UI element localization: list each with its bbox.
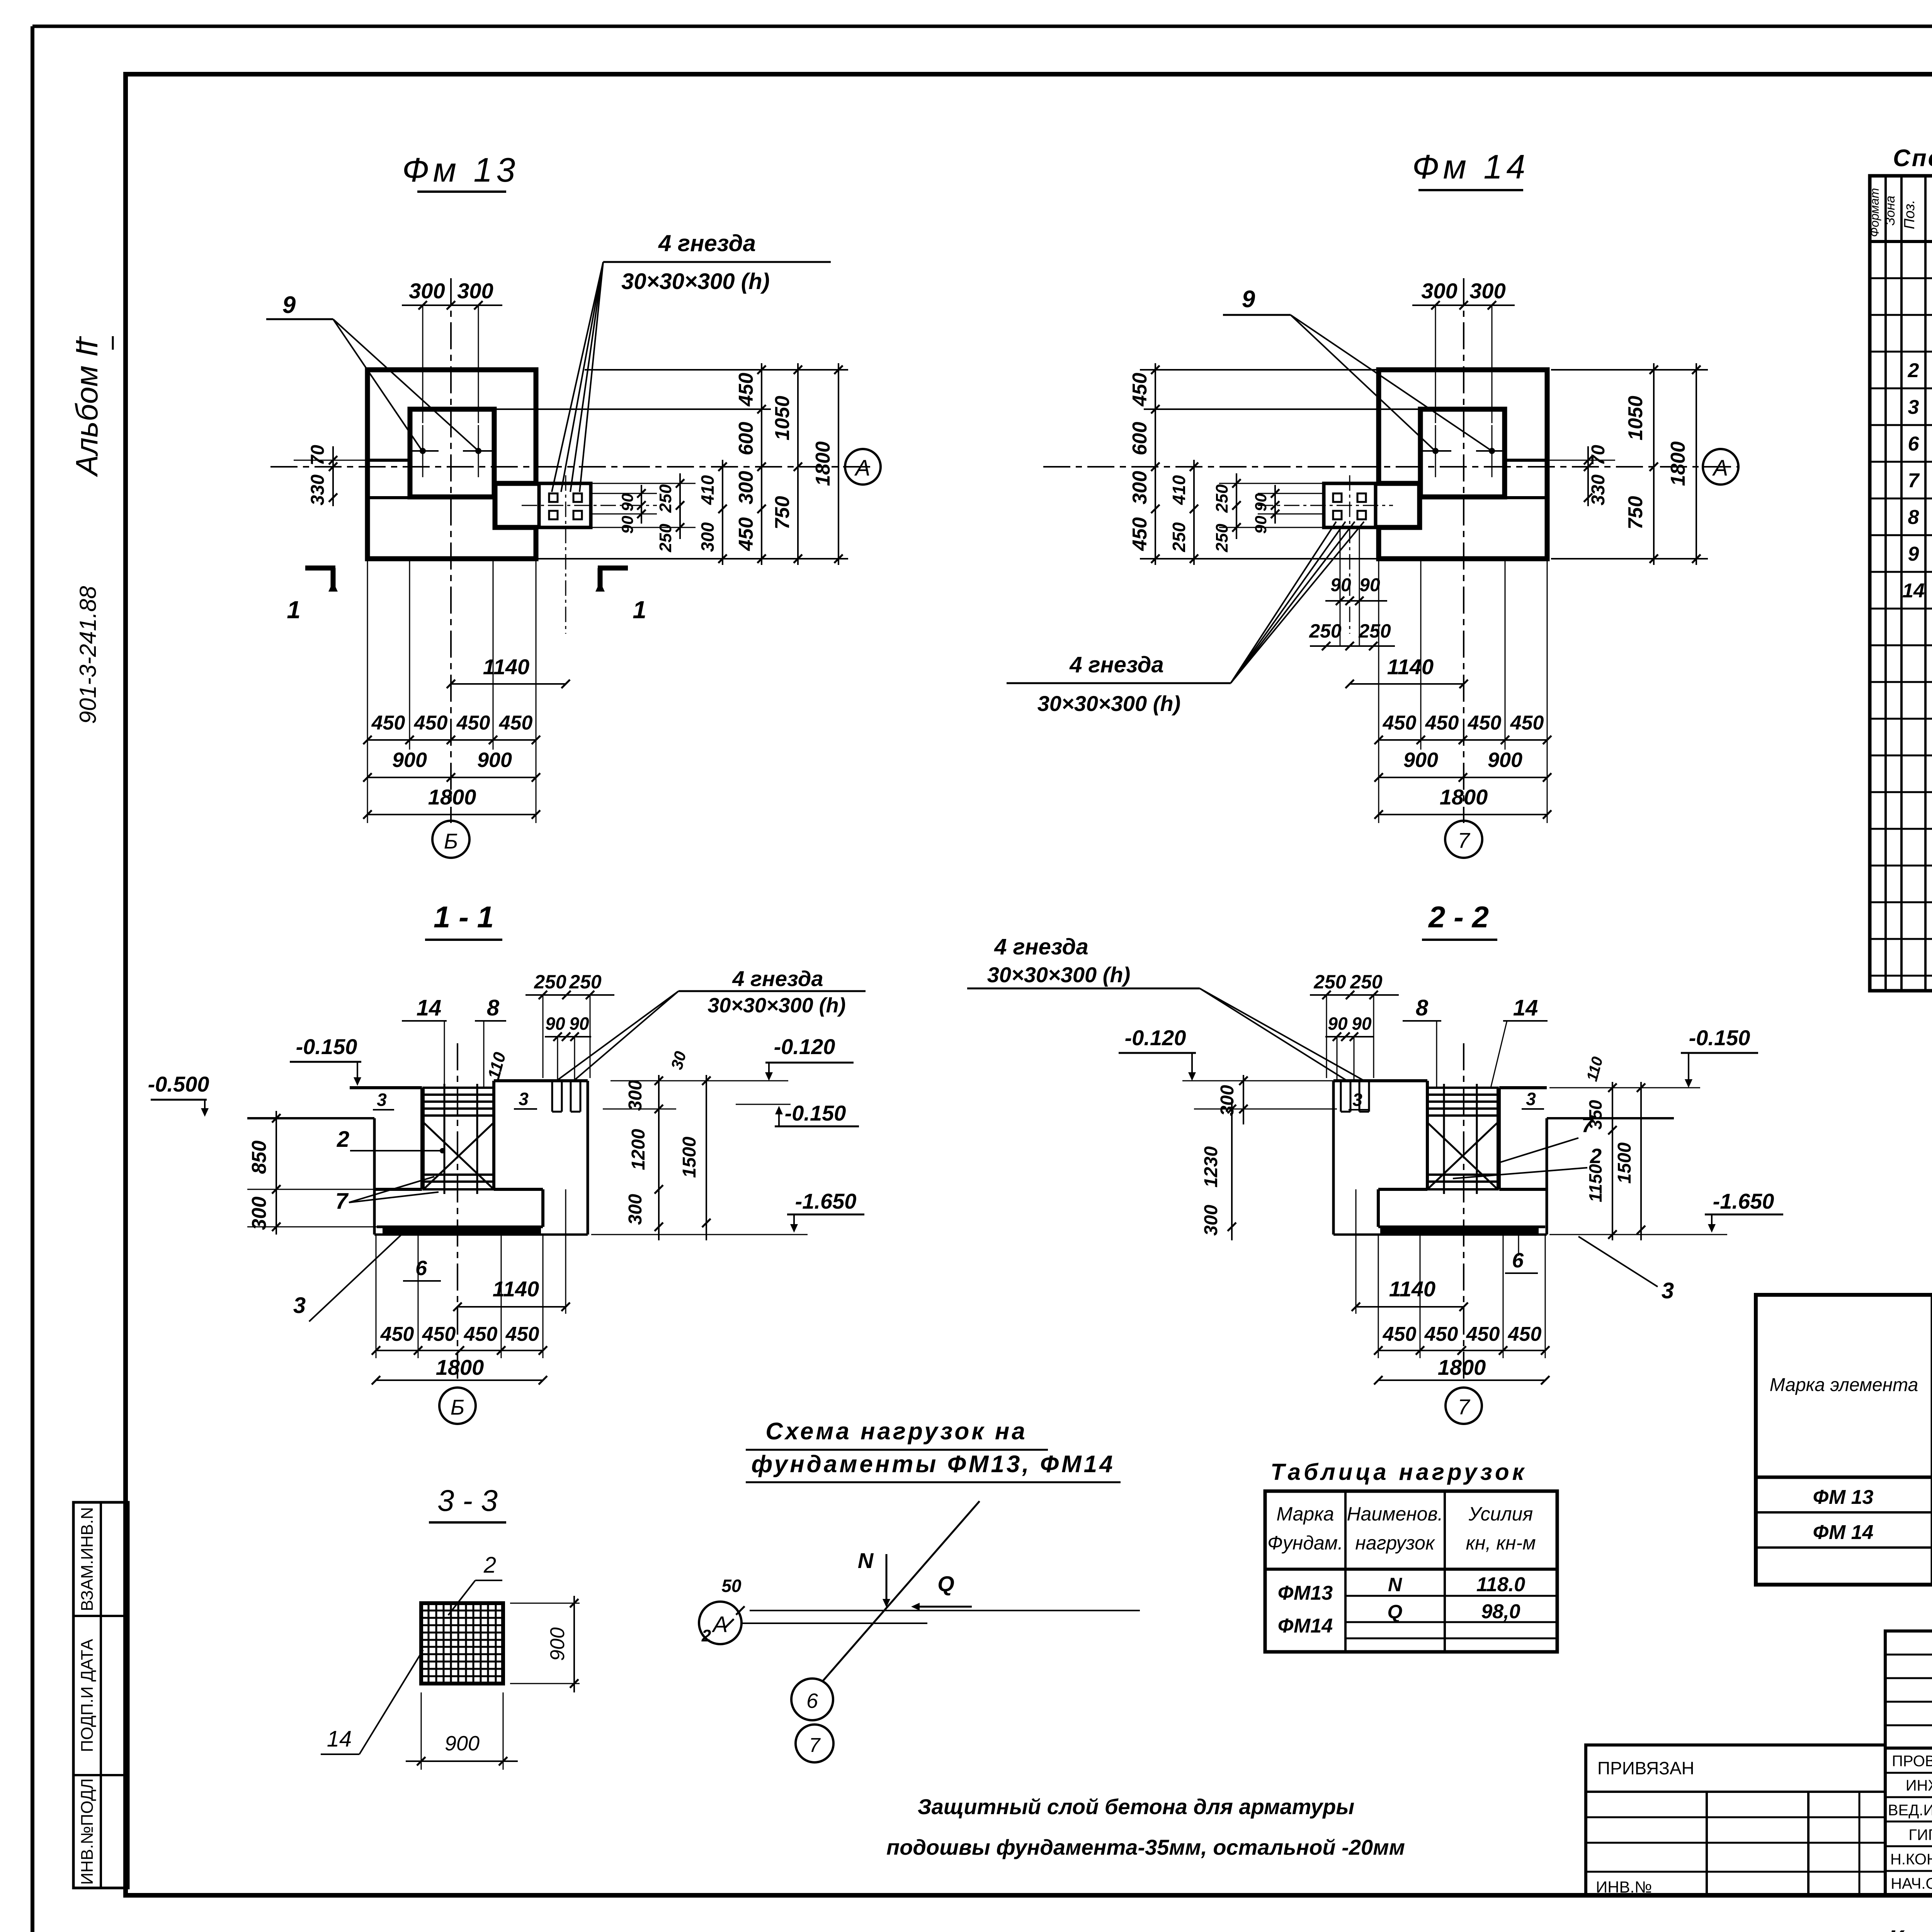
sec2 excavation right wall: [1546, 1118, 1548, 1235]
svg-text:7: 7: [1582, 1114, 1594, 1137]
FM13 section mark 1 left: [305, 566, 335, 571]
sheet outer left edge line: [31, 26, 34, 1932]
sec1 bottom extension lines: [376, 1235, 377, 1358]
svg-text:410: 410: [697, 475, 718, 505]
sec1 pad right edge: [541, 1189, 544, 1227]
svg-text:фундаменты ФМ13, ФМ14: фундаменты ФМ13, ФМ14: [751, 1451, 1115, 1478]
svg-text:7: 7: [1458, 828, 1470, 852]
FM13 socket squares in box: [549, 493, 558, 502]
svg-text:900: 900: [546, 1628, 569, 1661]
svg-text:3: 3: [1908, 396, 1919, 418]
svg-text:Марка: Марка: [1276, 1503, 1334, 1525]
svg-text:300: 300: [457, 279, 493, 303]
svg-text:3: 3: [1662, 1278, 1674, 1303]
svg-text:1500: 1500: [1614, 1142, 1635, 1184]
svg-text:1230: 1230: [1201, 1146, 1221, 1187]
svg-text:450: 450: [414, 712, 448, 734]
svg-text:6: 6: [415, 1257, 427, 1280]
sec2 axis 7 circle: [1446, 1388, 1482, 1424]
svg-text:750: 750: [1624, 496, 1647, 530]
svg-text:250: 250: [1213, 524, 1231, 553]
svg-text:Q: Q: [1388, 1601, 1403, 1622]
sec1 trench right wall: [587, 1081, 589, 1235]
sec1 pedestal right edge: [492, 1081, 495, 1189]
sec2 surface right: [1499, 1086, 1547, 1089]
svg-text:90: 90: [1252, 493, 1270, 512]
svg-text:ИНВ.№ПОДЛ: ИНВ.№ПОДЛ: [78, 1778, 97, 1885]
FM13 connection element box: [539, 483, 591, 527]
FM14 right step lines: [1505, 459, 1547, 462]
svg-text:300: 300: [697, 522, 718, 552]
sec1 socket slots: [551, 1081, 553, 1112]
FM14 small dims near box 90 90 250 250: [1258, 493, 1324, 494]
svg-text:3: 3: [377, 1090, 387, 1110]
svg-text:6: 6: [1908, 433, 1920, 455]
FM14 right dim line 1050 750: [1653, 363, 1655, 565]
svg-text:300: 300: [1421, 279, 1457, 303]
svg-text:-0.120: -0.120: [774, 1034, 835, 1059]
svg-text:450: 450: [1129, 517, 1151, 551]
3-3 dim 900 right: [510, 1603, 580, 1604]
svg-text:7: 7: [1908, 469, 1920, 492]
svg-text:900: 900: [1403, 748, 1438, 772]
svg-text:кн, кн-м: кн, кн-м: [1466, 1532, 1536, 1554]
svg-text:ИНВ.№: ИНВ.№: [1596, 1878, 1652, 1896]
FM13 axis A circle: [845, 449, 881, 485]
svg-text:600: 600: [1129, 422, 1151, 456]
sec2 trench left wall: [1332, 1081, 1335, 1235]
svg-text:Б: Б: [451, 1395, 464, 1419]
svg-text:8: 8: [1416, 995, 1429, 1020]
FM13 right extension lines: [585, 369, 848, 371]
FM13 bottom extension lines: [367, 559, 368, 823]
svg-text:Б: Б: [444, 829, 458, 853]
svg-text:300: 300: [1129, 471, 1151, 505]
svg-text:ПОДП.И ДАТА: ПОДП.И ДАТА: [78, 1639, 97, 1752]
svg-text:900: 900: [477, 748, 512, 772]
FM13 centerline horizontal axis A: [270, 466, 871, 468]
spec table column lines: [1884, 176, 1887, 991]
svg-text:7: 7: [809, 1734, 821, 1757]
svg-text:300: 300: [409, 279, 445, 303]
svg-text:14: 14: [1513, 995, 1538, 1020]
svg-text:850: 850: [248, 1141, 270, 1174]
svg-text:450: 450: [1129, 373, 1151, 407]
svg-text:250: 250: [534, 971, 566, 993]
FM13 axis B circle: [432, 821, 469, 858]
title block upper table: [1885, 1631, 1932, 1748]
sec1 right dims 300 1200 300: [658, 1075, 660, 1240]
svg-text:2: 2: [701, 1626, 711, 1645]
svg-text:7: 7: [1458, 1395, 1470, 1419]
FM14 right dim line 1800: [1696, 363, 1697, 565]
FM14 left dim line 450 600 300 450: [1155, 363, 1156, 565]
svg-text:90: 90: [569, 1014, 589, 1034]
svg-text:1050: 1050: [771, 396, 794, 440]
svg-text:250: 250: [569, 971, 602, 993]
svg-text:ФМ 13: ФМ 13: [1813, 1486, 1874, 1509]
FM14 centerline horizontal axis A: [1043, 466, 1739, 468]
svg-text:1150: 1150: [1585, 1164, 1605, 1202]
svg-text:450: 450: [1468, 712, 1502, 734]
sec2 bottom line: [1333, 1233, 1547, 1236]
svg-text:450: 450: [1425, 712, 1459, 734]
svg-text:90: 90: [618, 493, 636, 512]
svg-text:подошвы фундамента-35мм, остал: подошвы фундамента-35мм, остальной -20мм: [886, 1835, 1405, 1859]
svg-text:-0.150: -0.150: [296, 1034, 357, 1059]
svg-text:1500: 1500: [679, 1136, 700, 1178]
sec1 axis B circle: [439, 1388, 476, 1424]
svg-text:N: N: [858, 1548, 874, 1573]
svg-text:14: 14: [1902, 580, 1925, 602]
FM13 small dims near box 90 90 250 250: [591, 493, 657, 494]
svg-text:4 гнезда: 4 гнезда: [994, 934, 1088, 959]
svg-text:901-3-241.88: 901-3-241.88: [75, 586, 101, 724]
svg-text:450: 450: [422, 1323, 456, 1345]
sec2 bottom extension lines: [1378, 1235, 1379, 1358]
3-3 dim 900 bottom: [421, 1692, 422, 1770]
svg-text:900: 900: [392, 748, 427, 772]
svg-text:1800: 1800: [1667, 441, 1689, 486]
sec1 pedestal left edge: [420, 1088, 423, 1189]
svg-text:3 - 3: 3 - 3: [437, 1483, 498, 1517]
svg-text:450: 450: [505, 1323, 539, 1345]
svg-text:250: 250: [1213, 484, 1231, 513]
svg-text:450: 450: [735, 517, 757, 551]
svg-text:1140: 1140: [1389, 1277, 1435, 1301]
svg-text:600: 600: [735, 422, 757, 456]
svg-text:90: 90: [1330, 575, 1351, 595]
svg-text:4 гнезда: 4 гнезда: [1069, 652, 1164, 677]
svg-text:90: 90: [545, 1014, 565, 1034]
svg-text:450: 450: [380, 1323, 414, 1345]
load scheme circle 6: [791, 1679, 833, 1720]
FM14 left dim 410 250: [1193, 460, 1195, 565]
sec1 excavation left wall: [373, 1118, 376, 1235]
FM14 left extension lines: [1140, 369, 1379, 371]
svg-text:450: 450: [1424, 1323, 1458, 1345]
svg-text:Формат: Формат: [1867, 188, 1881, 237]
3-3 mesh square: [421, 1603, 503, 1684]
svg-text:ВЕД.ИНЖ: ВЕД.ИНЖ: [1888, 1802, 1932, 1819]
svg-text:Схема нагрузок на: Схема нагрузок на: [765, 1418, 1027, 1445]
FM14 connection element box: [1324, 483, 1376, 527]
svg-text:300: 300: [1201, 1205, 1221, 1236]
FM13 gnezda points: [420, 448, 426, 454]
svg-text:6: 6: [806, 1689, 818, 1713]
FM13 left step lines: [367, 459, 410, 462]
svg-text:30×30×300 (h): 30×30×300 (h): [621, 269, 770, 294]
svg-text:300: 300: [248, 1197, 270, 1230]
svg-text:4 гнезда: 4 гнезда: [658, 230, 756, 256]
svg-text:Поз.: Поз.: [1901, 200, 1918, 229]
svg-text:250: 250: [1313, 971, 1346, 993]
svg-text:Фм 14: Фм 14: [1412, 148, 1529, 186]
svg-text:450: 450: [371, 712, 405, 734]
FM14 pedestal outline: [1420, 409, 1505, 497]
svg-text:ВЗАМ.ИНВ.N: ВЗАМ.ИНВ.N: [78, 1507, 97, 1611]
FM14 socket squares in box: [1333, 493, 1342, 502]
svg-text:1050: 1050: [1624, 396, 1647, 440]
svg-text:1800: 1800: [1438, 1355, 1486, 1379]
svg-text:А: А: [1712, 456, 1728, 481]
FM13 left dim 330 70: [332, 446, 334, 506]
svg-text:ФМ14: ФМ14: [1278, 1615, 1333, 1637]
FM13 pedestal outline: [410, 409, 494, 497]
svg-text:300: 300: [625, 1194, 646, 1225]
spec table header bottom line: [1870, 240, 1932, 243]
svg-text:90: 90: [1359, 575, 1380, 595]
svg-text:1800: 1800: [436, 1355, 484, 1379]
svg-text:А: А: [712, 1612, 728, 1637]
svg-text:450: 450: [464, 1323, 498, 1345]
svg-text:-0.150: -0.150: [785, 1101, 846, 1125]
FM13 centerline vertical axis B: [450, 278, 452, 823]
svg-text:нагрузок: нагрузок: [1355, 1532, 1435, 1554]
svg-text:Марка элемента: Марка элемента: [1770, 1375, 1918, 1395]
svg-text:9: 9: [282, 292, 296, 318]
svg-text:90: 90: [1352, 1014, 1372, 1034]
svg-text:Зона: Зона: [1883, 196, 1898, 225]
load table grid: [1265, 1491, 1557, 1652]
FM13 right dim line 450 600 300 450: [761, 363, 762, 565]
sec1 pad top lines: [374, 1188, 422, 1191]
svg-text:90: 90: [1252, 516, 1270, 534]
svg-text:Альбом II: Альбом II: [70, 340, 104, 477]
svg-text:450: 450: [1383, 1323, 1417, 1345]
svg-text:50: 50: [721, 1576, 742, 1596]
FM13 dim 410 300 line: [722, 460, 723, 565]
FM14 right dim 330 70: [1587, 446, 1589, 506]
svg-text:250: 250: [1358, 620, 1391, 642]
sec2 socket slots: [1340, 1081, 1342, 1112]
svg-text:Копировал: Алешикова: Копировал: Алешикова: [1888, 1925, 1932, 1932]
svg-text:14: 14: [417, 995, 442, 1020]
svg-text:ПРОВЕР: ПРОВЕР: [1892, 1753, 1932, 1770]
svg-text:ИНЖ: ИНЖ: [1906, 1777, 1932, 1794]
sec2 right dim 1500: [1640, 1082, 1642, 1240]
svg-text:9: 9: [1908, 543, 1919, 565]
svg-text:410: 410: [1169, 475, 1189, 505]
svg-text:90: 90: [1328, 1014, 1348, 1034]
sec2 ground level right: [1547, 1117, 1674, 1119]
svg-text:1: 1: [633, 596, 646, 624]
svg-text:300: 300: [735, 471, 757, 505]
sec1 surface right with sockets: [494, 1079, 588, 1082]
sheet outer top edge line: [32, 25, 1932, 28]
sec2 pad bottom: [1378, 1226, 1545, 1228]
FM13 foundation pad outline: [367, 370, 536, 559]
svg-text:900: 900: [445, 1732, 480, 1755]
svg-text:Q: Q: [937, 1571, 954, 1596]
svg-text:450: 450: [735, 373, 757, 407]
svg-text:Защитный слой бетона для арм: Защитный слой бетона для арматуры: [918, 1794, 1354, 1819]
svg-text:-1.650: -1.650: [1713, 1189, 1774, 1213]
svg-text:ПРИВЯЗАН: ПРИВЯЗАН: [1597, 1758, 1694, 1778]
svg-text:90: 90: [618, 516, 636, 534]
sec2 pedestal right edge: [1498, 1088, 1501, 1189]
svg-text:НАЧ.ОТД: НАЧ.ОТД: [1891, 1875, 1932, 1892]
sec2 surface left with sockets: [1333, 1079, 1427, 1082]
svg-text:-1.650: -1.650: [795, 1189, 857, 1213]
FM14 foundation pad outline: [1379, 370, 1547, 559]
svg-text:Усилия: Усилия: [1468, 1503, 1533, 1525]
svg-text:1800: 1800: [1440, 785, 1488, 809]
svg-text:1140: 1140: [483, 655, 529, 679]
svg-text:1: 1: [287, 596, 301, 624]
svg-text:-0.120: -0.120: [1125, 1026, 1186, 1050]
FM14 axis 7 circle: [1445, 821, 1482, 858]
svg-text:7: 7: [335, 1189, 349, 1214]
svg-text:70: 70: [308, 445, 328, 466]
svg-text:250: 250: [1350, 971, 1383, 993]
spec table outer border: [1870, 176, 1932, 991]
svg-text:30×30×300 (h): 30×30×300 (h): [987, 963, 1130, 987]
sec1 rebar cage: [423, 1088, 494, 1189]
svg-text:450: 450: [1383, 712, 1417, 734]
svg-text:Фундам.: Фундам.: [1267, 1532, 1343, 1554]
svg-text:-0.150: -0.150: [1689, 1026, 1750, 1050]
svg-text:6: 6: [1512, 1249, 1524, 1272]
svg-text:8: 8: [1908, 506, 1919, 529]
svg-text:30×30×300 (h): 30×30×300 (h): [1037, 691, 1180, 716]
svg-text:450: 450: [1508, 1323, 1542, 1345]
sec1 right dim 1500: [706, 1075, 707, 1240]
sec1 vertical centerline: [457, 1043, 458, 1383]
title block staff rows: [1885, 1748, 1932, 1895]
load scheme horizontal lines: [742, 1622, 927, 1624]
svg-text:330: 330: [1588, 474, 1609, 505]
FM14 bottom extension lines: [1378, 559, 1379, 823]
svg-text:2 - 2: 2 - 2: [1428, 900, 1489, 934]
load scheme circle 7: [796, 1725, 833, 1762]
svg-text:750: 750: [771, 496, 794, 530]
svg-text:2: 2: [1908, 359, 1919, 382]
svg-text:98,0: 98,0: [1481, 1600, 1520, 1623]
svg-text:2: 2: [337, 1127, 349, 1152]
svg-text:250: 250: [656, 524, 675, 553]
sec2 rebar cage: [1427, 1088, 1498, 1189]
svg-text:ГИП: ГИП: [1908, 1827, 1932, 1844]
sec1 left dim 850 300: [276, 1111, 277, 1235]
svg-text:ФМ 14: ФМ 14: [1813, 1521, 1874, 1544]
svg-text:450: 450: [1510, 712, 1544, 734]
left margin stamp cells: [73, 1502, 128, 1888]
svg-text:Н.КОНТР: Н.КОНТР: [1890, 1851, 1932, 1868]
steel table outer border: [1756, 1295, 1932, 1585]
load scheme diagonal member: [822, 1501, 980, 1682]
svg-text:300: 300: [1217, 1085, 1238, 1116]
svg-text:ФМ13: ФМ13: [1278, 1582, 1333, 1604]
FM14 box centerlines: [1258, 505, 1393, 506]
svg-text:300: 300: [625, 1080, 646, 1111]
sec1 concrete prep black strip: [383, 1227, 541, 1233]
spec table row lines: [1870, 277, 1932, 279]
svg-text:9: 9: [1242, 286, 1255, 313]
svg-text:70: 70: [1588, 445, 1609, 466]
sec1 bottom line: [374, 1233, 588, 1236]
svg-text:118.0: 118.0: [1476, 1573, 1525, 1596]
FM14 gnezda points: [1432, 448, 1439, 454]
sec2 left dim 300 1230 300: [1243, 1075, 1244, 1124]
svg-text:1200: 1200: [628, 1129, 649, 1170]
svg-text:3: 3: [1526, 1089, 1536, 1109]
sec2 concrete prep black strip: [1380, 1227, 1539, 1233]
FM14 axis A circle: [1703, 449, 1738, 485]
svg-text:2: 2: [483, 1553, 496, 1578]
svg-text:Таблица нагрузок: Таблица нагрузок: [1270, 1459, 1527, 1485]
load scheme axis A circle: [699, 1602, 742, 1644]
svg-text:450: 450: [1466, 1323, 1500, 1345]
FM13 right dim line 1800: [838, 363, 839, 565]
svg-text:330: 330: [308, 474, 328, 505]
svg-text:14: 14: [327, 1726, 352, 1752]
svg-text:1140: 1140: [1387, 655, 1434, 679]
sec2 pedestal left edge: [1426, 1081, 1429, 1189]
svg-text:450: 450: [456, 712, 490, 734]
svg-text:250: 250: [656, 484, 675, 513]
svg-text:А: А: [854, 456, 871, 481]
sec2 pad left edge: [1377, 1189, 1380, 1227]
svg-text:250: 250: [1309, 620, 1342, 642]
svg-text:3: 3: [293, 1293, 306, 1318]
FM13 right dim line 1050 750: [797, 363, 799, 565]
svg-text:Спецификация монолитных фундам: Спецификация монолитных фундаментов ФМ 1…: [1893, 145, 1932, 172]
FM13 section mark 1 right: [598, 566, 628, 571]
FM13 box centerlines: [522, 505, 657, 506]
svg-text:1800: 1800: [428, 785, 476, 809]
svg-text:3: 3: [1352, 1090, 1362, 1110]
sec1 pad bottom: [377, 1226, 543, 1228]
svg-text:Наименов.: Наименов.: [1347, 1503, 1443, 1525]
svg-text:1140: 1140: [493, 1277, 539, 1301]
svg-text:900: 900: [1488, 748, 1522, 772]
steel table vertical lines: [1931, 1295, 1932, 1585]
svg-text:450: 450: [499, 712, 533, 734]
svg-text:8: 8: [487, 995, 500, 1020]
sec2 vertical centerline: [1463, 1043, 1464, 1383]
svg-text:4 гнезда: 4 гнезда: [732, 966, 823, 991]
sec1 ground level -0.500 line: [247, 1117, 374, 1119]
svg-text:-0.500: -0.500: [148, 1072, 209, 1096]
svg-text:1 - 1: 1 - 1: [434, 900, 494, 934]
svg-text:Фм 13: Фм 13: [402, 151, 519, 189]
svg-text:1800: 1800: [812, 441, 834, 486]
svg-text:2: 2: [1590, 1145, 1602, 1168]
title block left section privyazan: [1586, 1745, 1885, 1895]
svg-text:3: 3: [519, 1089, 529, 1109]
FM14 centerline vertical axis 7: [1463, 278, 1464, 823]
sec1 ground surface left: [350, 1086, 422, 1089]
svg-text:250: 250: [1169, 522, 1189, 552]
svg-text:30×30×300 (h): 30×30×300 (h): [707, 994, 845, 1017]
svg-text:300: 300: [1469, 279, 1505, 303]
sec2 pad top lines: [1378, 1188, 1427, 1191]
svg-text:N: N: [1388, 1574, 1402, 1595]
